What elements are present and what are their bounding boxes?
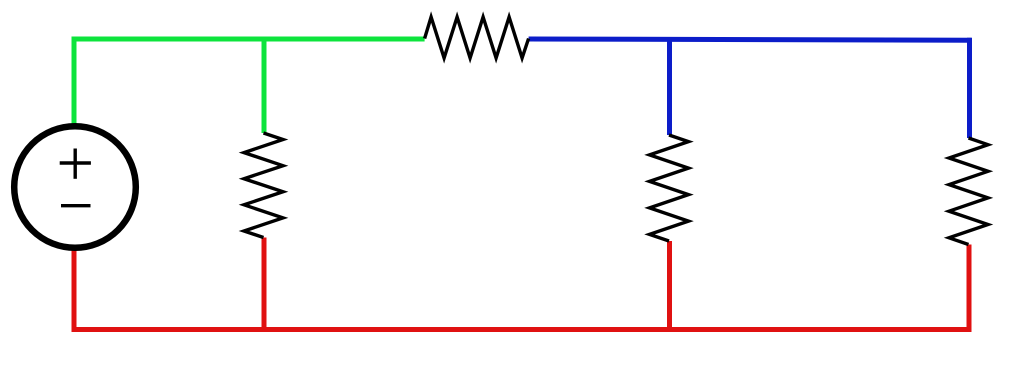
wire: red stub from R3 bottom to bottom rail <box>667 241 672 332</box>
wire: green top rail from left corner to R2 left terminal <box>72 37 425 42</box>
resistor R3 (middle vertical, node B to ground) <box>650 135 689 241</box>
wire: red stub from R4 bottom to bottom rail <box>967 245 972 333</box>
resistor R4 (right vertical, node B to ground) <box>949 138 988 245</box>
resistor R2 (horizontal, node A to node B) <box>425 17 529 58</box>
wire: green stub from T-junction down to R1 top <box>262 37 267 134</box>
wire: red bottom rail (ground return) <box>72 327 971 332</box>
wire: blue rail from R2 right terminal to top-right corner <box>529 39 972 40</box>
wire: blue vertical from top-right corner down to R4 top <box>967 38 972 138</box>
node B: blue T-junction <box>667 38 672 40</box>
resistor R1 (left vertical, node A to ground) <box>244 133 283 238</box>
wire: red vertical from source bottom to bottom rail <box>72 250 77 330</box>
node A: green T-junction <box>262 38 267 40</box>
wire: blue stub from T-junction down to R3 top <box>667 37 672 135</box>
voltage source V1: circle <box>14 126 136 248</box>
voltage source V1: plus sign <box>60 149 91 179</box>
voltage source V1: minus sign <box>61 204 91 207</box>
wire: red stub from R1 bottom to bottom rail <box>262 238 267 333</box>
wire: green net, vertical from source top to top rail <box>72 39 77 124</box>
